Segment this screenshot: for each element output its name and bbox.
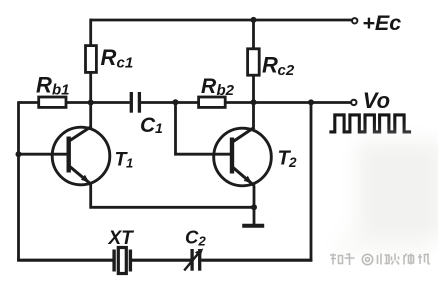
transistor Q1 base wire: [17, 153, 67, 156]
watermark 知乎 @微光倾城: [330, 253, 430, 265]
node Rb2 / Rc2 / T2 collector: [251, 99, 257, 105]
transistor T2: [214, 128, 272, 186]
svg-text:R: R: [201, 75, 217, 98]
terminal +Ec: [352, 18, 357, 23]
node output / right vertical: [308, 99, 314, 105]
scan smudge (decorative): [335, 142, 438, 252]
transistor T1: [52, 127, 110, 185]
svg-text:C: C: [185, 227, 199, 248]
wire Rb2 to output terminal: [225, 101, 351, 104]
svg-text:Vo: Vo: [363, 88, 390, 113]
wire T1 collector: [89, 104, 92, 127]
node emitters junction: [251, 204, 257, 210]
resistor Rc1: [89, 19, 92, 46]
wire right vertical: [310, 103, 313, 262]
node T1 base / left vertical: [16, 151, 22, 157]
svg-text:R: R: [36, 72, 52, 97]
waveform square wave: [329, 115, 411, 132]
node top rail / Rc2: [251, 17, 257, 23]
resistor Rb1: [39, 97, 66, 107]
svg-text:c2: c2: [278, 62, 295, 79]
svg-text:2: 2: [198, 234, 207, 249]
wire bottom right segment: [201, 259, 312, 262]
node C1 / Rb2 / T2 base: [173, 99, 179, 105]
wire XT to C2: [132, 259, 191, 262]
svg-text:b2: b2: [217, 82, 235, 99]
wire base row left segment: [19, 101, 40, 104]
wire T1 emitter down and across: [91, 185, 254, 208]
svg-text:1: 1: [126, 156, 133, 171]
svg-text:R: R: [101, 45, 117, 70]
svg-text:C: C: [140, 114, 156, 137]
wire Rb1 to C1: [66, 101, 130, 104]
wire T2 emitter: [253, 186, 256, 208]
wire C1 to Rb2: [141, 101, 199, 104]
svg-text:b1: b1: [52, 82, 70, 99]
wire left vertical: [17, 101, 20, 261]
wire C1 node to T2 base: [176, 103, 231, 155]
svg-text:+Ec: +Ec: [362, 11, 401, 35]
wire T2 collector: [252, 104, 255, 128]
svg-text:R: R: [262, 53, 278, 78]
svg-text:2: 2: [288, 155, 297, 170]
capacitor C2: [190, 249, 193, 271]
resistor Rc2: [252, 19, 255, 49]
ground: [253, 207, 256, 224]
node Rc1 / Rb1 / C1 / T1 collector: [88, 100, 94, 106]
wire top supply rail: [90, 19, 353, 22]
capacitor C1: [130, 92, 133, 113]
resistor Rb2: [199, 97, 226, 107]
svg-text:XT: XT: [108, 228, 135, 249]
svg-text:c1: c1: [117, 55, 134, 72]
crystal XT: [112, 250, 115, 272]
svg-text:1: 1: [155, 120, 163, 136]
wire bottom left segment: [17, 259, 112, 262]
terminal Vo: [351, 100, 356, 105]
